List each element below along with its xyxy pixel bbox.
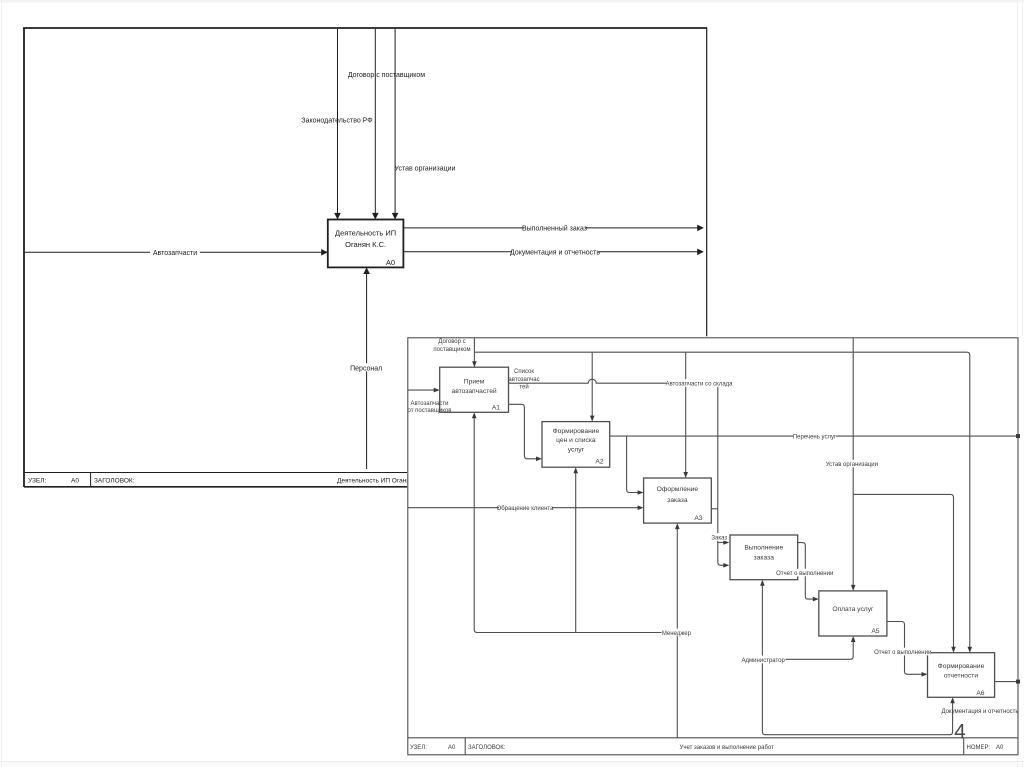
svg-text:от поставщиков: от поставщиков <box>408 408 452 414</box>
svg-text:Администратор: Администратор <box>742 658 786 664</box>
svg-text:автозапчастей: автозапчастей <box>452 387 497 395</box>
svg-text:Выполненный заказ: Выполненный заказ <box>522 224 587 232</box>
svg-text:заказа: заказа <box>667 497 688 504</box>
svg-text:А0: А0 <box>386 258 395 267</box>
svg-text:Формирование: Формирование <box>938 663 985 670</box>
svg-text:Оплата услуг: Оплата услуг <box>832 606 874 613</box>
svg-text:Автозапчасти: Автозапчасти <box>411 401 449 407</box>
svg-text:Автозапчасти: Автозапчасти <box>153 250 197 257</box>
svg-text:НОМЕР:: НОМЕР: <box>967 745 991 751</box>
svg-text:Отчет о выполнении: Отчет о выполнении <box>776 571 833 577</box>
svg-text:Договор с поставщиком: Договор с поставщиком <box>348 72 425 79</box>
svg-text:А1: А1 <box>492 404 500 411</box>
svg-text:автозапчас: автозапчас <box>508 377 539 383</box>
svg-text:УЗЕЛ:: УЗЕЛ: <box>28 478 47 485</box>
svg-text:заказа: заказа <box>754 555 775 562</box>
svg-text:Персонал: Персонал <box>350 365 382 372</box>
svg-text:Выполнение: Выполнение <box>744 545 783 552</box>
svg-text:поставщиком: поставщиком <box>433 347 470 353</box>
svg-text:Прием: Прием <box>464 379 485 386</box>
svg-text:Автозапчасти со склада: Автозапчасти со склада <box>665 382 733 388</box>
svg-text:отчетности: отчетности <box>944 673 978 680</box>
svg-text:ЗАГОЛОВОК:: ЗАГОЛОВОК: <box>94 478 135 485</box>
svg-text:Оганян К.С.: Оганян К.С. <box>345 240 386 249</box>
svg-text:А0: А0 <box>448 745 456 751</box>
svg-text:Законодательство РФ: Законодательство РФ <box>301 118 372 125</box>
svg-text:Учет заказов и выполнение рабо: Учет заказов и выполнение работ <box>680 745 775 751</box>
svg-text:Устав организации: Устав организации <box>395 166 456 173</box>
svg-text:Оформление: Оформление <box>657 486 699 493</box>
svg-text:Документация и отчетность: Документация и отчетность <box>941 709 1018 715</box>
svg-text:А0: А0 <box>71 478 79 485</box>
svg-text:услуг: услуг <box>568 447 585 454</box>
svg-text:А0: А0 <box>996 745 1004 751</box>
svg-text:Устав организации: Устав организации <box>826 462 878 468</box>
svg-text:тей: тей <box>519 384 528 391</box>
svg-text:Список: Список <box>514 369 534 375</box>
svg-text:А2: А2 <box>595 459 603 466</box>
svg-text:4: 4 <box>954 721 966 744</box>
svg-text:Перечень услуг: Перечень услуг <box>793 435 837 441</box>
svg-text:Документация и отчетность: Документация и отчетность <box>510 249 600 256</box>
svg-text:цен и списка: цен и списка <box>556 437 596 444</box>
svg-text:Договор с: Договор с <box>438 339 465 345</box>
svg-text:Отчет о выполнении: Отчет о выполнении <box>874 650 931 656</box>
svg-text:ЗАГОЛОВОК:: ЗАГОЛОВОК: <box>468 745 506 751</box>
svg-text:А6: А6 <box>976 690 984 697</box>
svg-text:Формирование: Формирование <box>553 428 600 435</box>
svg-text:Деятельность ИП: Деятельность ИП <box>335 229 396 238</box>
svg-text:УЗЕЛ:: УЗЕЛ: <box>410 745 427 751</box>
svg-text:Заказ: Заказ <box>711 535 727 541</box>
svg-text:А5: А5 <box>871 628 879 635</box>
svg-text:Обращение клиента: Обращение клиента <box>497 506 555 512</box>
svg-text:А3: А3 <box>694 515 702 522</box>
svg-text:Менеджер: Менеджер <box>662 631 692 637</box>
